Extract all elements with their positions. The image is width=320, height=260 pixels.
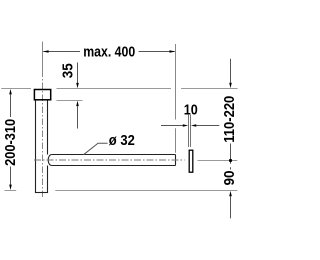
dimension 10 extension lines: [189, 115, 191, 147]
svg-text:90: 90: [222, 171, 238, 186]
floor reference line: [55, 190, 237, 192]
svg-text:max. 400: max. 400: [83, 45, 135, 61]
cap-top reference line: [1, 88, 237, 90]
dimension 35: [76, 63, 79, 129]
dimension line max. 400: [43, 50, 175, 53]
svg-text:200-310: 200-310: [3, 119, 19, 166]
pipe-end extension line: [175, 44, 177, 153]
vertical pipe body: [35, 101, 48, 193]
svg-text:35: 35: [60, 63, 76, 78]
dimension 90: [229, 191, 232, 219]
leader line for diameter: [83, 143, 107, 155]
svg-text:110-220: 110-220: [222, 96, 238, 143]
horizontal outlet pipe: [48, 155, 175, 166]
outlet pipe axis centerline: [34, 159, 185, 161]
svg-text:ø 32: ø 32: [109, 133, 135, 149]
axis extension to dimension line: [198, 160, 238, 162]
vertical pipe centerline: [42, 42, 44, 198]
dimension 10 arrows: [161, 124, 219, 127]
dimension 110-220: [229, 59, 232, 170]
svg-text:10: 10: [184, 102, 198, 118]
wall flange plate: [189, 150, 193, 172]
pipe cap: [34, 90, 50, 100]
dimension 200-310: [5, 89, 17, 191]
cap-bottom reference line: [57, 100, 83, 102]
